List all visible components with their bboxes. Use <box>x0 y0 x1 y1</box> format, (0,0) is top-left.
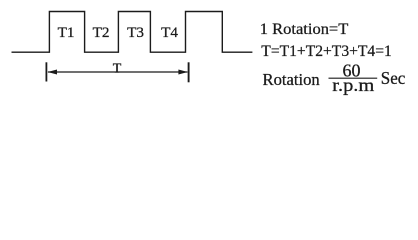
svg-text:Rotation: Rotation <box>263 70 320 89</box>
svg-text:Sec: Sec <box>381 68 406 88</box>
svg-text:T2: T2 <box>93 24 110 41</box>
svg-text:r.p.m: r.p.m <box>332 75 374 95</box>
svg-text:T: T <box>113 62 122 77</box>
right arrowhead <box>178 70 187 75</box>
dimension left tick <box>45 62 47 81</box>
svg-text:T1: T1 <box>58 24 75 41</box>
svg-text:1 Rotation=T: 1 Rotation=T <box>260 21 349 38</box>
svg-text:T=T1+T2+T3+T4=1: T=T1+T2+T3+T4=1 <box>261 43 392 60</box>
svg-text:T4: T4 <box>161 24 178 41</box>
fraction bar <box>329 77 378 79</box>
svg-text:T3: T3 <box>127 24 144 41</box>
dimension right tick <box>188 62 190 82</box>
dimension arrow line <box>48 71 188 73</box>
wire waveform square pulses <box>12 12 253 53</box>
left arrowhead <box>48 70 57 75</box>
